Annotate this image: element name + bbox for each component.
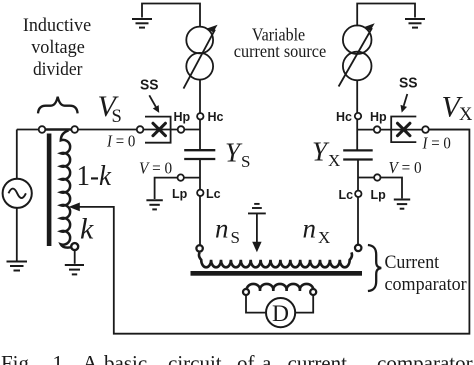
AC source G1 xyxy=(3,179,32,208)
switch SS (left): X contact xyxy=(153,123,165,135)
svg-text:X: X xyxy=(318,228,330,247)
node: right switch output xyxy=(422,126,429,133)
svg-text:Current: Current xyxy=(385,252,440,273)
wire: riser from AC source to rail xyxy=(16,130,18,180)
ground (below divider) xyxy=(65,265,84,274)
svg-text:S: S xyxy=(112,107,122,127)
wire: top-right from current source to ground xyxy=(357,4,415,27)
svg-text:SS: SS xyxy=(140,77,159,94)
text: Variable current source xyxy=(234,25,326,62)
svg-text:n: n xyxy=(215,214,229,244)
svg-text:a: a xyxy=(262,351,272,365)
svg-text:circuit: circuit xyxy=(168,351,222,365)
detector D xyxy=(266,298,295,327)
node Hp (right port circle) xyxy=(374,126,381,133)
arrowhead at k tap xyxy=(69,203,80,212)
ground (right V=0) xyxy=(394,200,410,209)
ground (top left) xyxy=(132,19,152,28)
text: Inductive voltage divider xyxy=(23,15,91,80)
svg-text:I = 0: I = 0 xyxy=(106,132,135,151)
svg-text:V = 0: V = 0 xyxy=(139,159,172,178)
svg-text:SS: SS xyxy=(399,75,418,92)
node Lc (left) xyxy=(197,190,203,196)
SS arrow (right) xyxy=(404,94,408,106)
comparator core bar xyxy=(191,271,363,276)
node: nS winding left ring xyxy=(196,245,202,251)
wire: left current source down to capacitor xyxy=(199,80,201,150)
node: divider top-right xyxy=(71,126,78,133)
svg-text:1-k: 1-k xyxy=(77,161,112,192)
wire: YS bottom down to comparator xyxy=(199,159,201,245)
svg-text:Hc: Hc xyxy=(208,110,224,124)
wire top-left from ground to left current source xyxy=(142,4,200,27)
ground (left V=0) xyxy=(146,200,162,209)
wire divider bottom to ground xyxy=(74,250,76,264)
V=0 wire (right) xyxy=(358,178,402,199)
right column: wire Lc down to nX xyxy=(357,160,359,245)
variable current source (left) U1 xyxy=(186,27,213,54)
switch SS (right): box xyxy=(391,117,416,143)
svg-text:I = 0: I = 0 xyxy=(422,134,451,153)
svg-text:n: n xyxy=(303,214,317,244)
svg-text:comparator: comparator xyxy=(377,351,473,365)
node: nX winding right ring xyxy=(355,245,361,251)
svg-text:Fig.: Fig. xyxy=(1,351,34,365)
svg-text:Lc: Lc xyxy=(339,188,354,202)
SS arrow (left) xyxy=(149,95,156,107)
wire: feedback loop from VX output to k tap xyxy=(74,130,470,334)
svg-text:S: S xyxy=(241,152,250,171)
brace current comparator xyxy=(368,245,381,291)
ground (top right) xyxy=(405,19,425,28)
svg-text:current source: current source xyxy=(234,41,326,61)
svg-text:comparator: comparator xyxy=(385,274,468,295)
svg-text:voltage: voltage xyxy=(31,37,85,58)
divider winding (1-k and k) xyxy=(61,131,75,248)
svg-text:k: k xyxy=(80,213,94,246)
V=0 wire (left) xyxy=(155,178,200,199)
wires to detector D xyxy=(246,295,266,313)
switch SS (left): box xyxy=(145,117,171,143)
svg-text:current: current xyxy=(288,351,348,365)
svg-text:X: X xyxy=(328,151,340,170)
svg-text:Hc: Hc xyxy=(336,110,352,124)
node Hc (right) xyxy=(355,113,361,119)
node: divider bottom ring xyxy=(71,243,78,250)
node Hp (left port circle) xyxy=(178,126,185,133)
svg-text:1.: 1. xyxy=(53,351,69,365)
svg-text:S: S xyxy=(231,228,240,247)
svg-text:D: D xyxy=(272,301,289,327)
capacitor YS plates xyxy=(184,150,215,159)
svg-text:Hp: Hp xyxy=(174,110,191,124)
wire: divider top thick segment xyxy=(44,128,72,131)
switch SS (right): X contact xyxy=(398,123,410,135)
svg-text:Inductive: Inductive xyxy=(23,15,91,36)
node Lp (left port circle) xyxy=(178,174,184,180)
node: divider top-left xyxy=(39,126,46,133)
svg-text:Hp: Hp xyxy=(370,110,387,124)
svg-text:of: of xyxy=(237,351,255,365)
brace over divider xyxy=(38,97,78,114)
node Lc (right) xyxy=(355,191,361,197)
capacitor YX plates xyxy=(343,150,373,159)
svg-text:divider: divider xyxy=(33,59,83,80)
svg-text:X: X xyxy=(459,105,473,125)
svg-text:Lp: Lp xyxy=(371,188,387,202)
ground (below AC source) xyxy=(7,262,28,271)
node Lp (right port circle) xyxy=(374,174,380,180)
caption (cut off at bottom) xyxy=(1,351,473,365)
detection winding xyxy=(247,284,314,291)
svg-text:Lc: Lc xyxy=(206,187,221,201)
wire: AC source to ground xyxy=(16,208,18,261)
svg-text:Lp: Lp xyxy=(172,187,188,201)
wire: right current source down to YX xyxy=(356,80,358,150)
node: left switch input xyxy=(137,126,144,133)
wire: main left rail VS xyxy=(17,129,200,131)
svg-text:V = 0: V = 0 xyxy=(389,158,422,177)
transformer core bar xyxy=(47,134,52,247)
node Hc (left port circle) xyxy=(197,113,203,119)
comparator ratio winding nS nX xyxy=(199,252,352,267)
variable current source (right) U2 xyxy=(343,25,372,54)
svg-text:basic: basic xyxy=(104,351,147,365)
inverted ground with arrow to core xyxy=(248,204,266,214)
right rail VX xyxy=(357,129,469,131)
svg-text:A: A xyxy=(83,351,99,365)
